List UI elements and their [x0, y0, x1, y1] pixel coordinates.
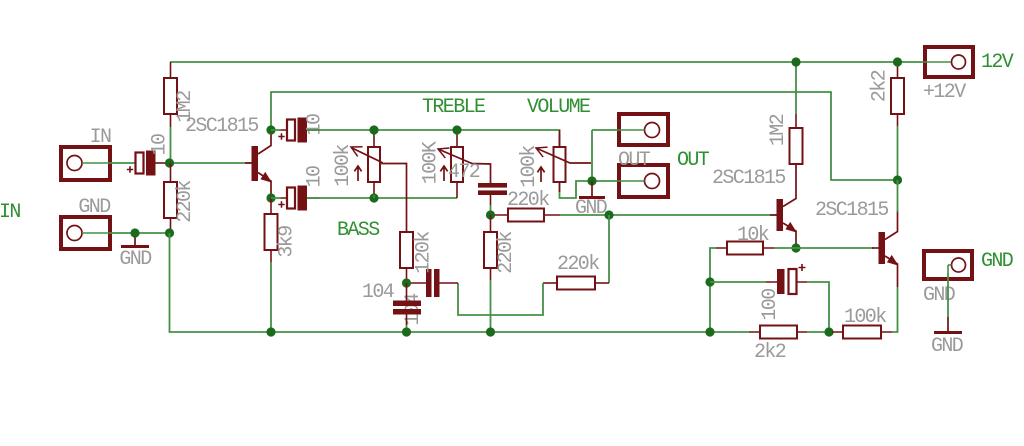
svg-text:2SC1815: 2SC1815: [712, 167, 785, 190]
svg-text:10k: 10k: [737, 224, 769, 247]
svg-text:BASS: BASS: [337, 219, 380, 242]
svg-text:1M2: 1M2: [767, 114, 790, 146]
wire tone network bottom: [307, 197, 457, 199]
resistor R10 10k: [727, 242, 763, 255]
wire X2 to ground node: [110, 232, 170, 234]
node P1 top: [369, 125, 378, 134]
wire C3 left: [271, 197, 281, 199]
node Q3 collector junction: [893, 175, 902, 184]
svg-text:100k: 100k: [518, 146, 541, 188]
svg-text:100k: 100k: [332, 145, 355, 187]
svg-text:3k9: 3k9: [276, 226, 299, 258]
node Q1 collector: [266, 125, 275, 134]
adjust arrow P3: [537, 167, 544, 182]
svg-text:GND: GND: [78, 196, 110, 219]
node bottom rail C6: [402, 327, 411, 336]
connector X5 12V: [923, 47, 973, 77]
svg-text:12V: 12V: [981, 51, 1014, 74]
potentiometer P3 100k VOLUME: [554, 147, 566, 182]
resistor R3 3k9 (emitter): [265, 214, 278, 250]
ground symbol left: [134, 233, 136, 245]
node cap node: [705, 277, 714, 286]
capacitor C5 104: [426, 269, 440, 297]
node rail R9: [893, 57, 902, 66]
node treble junction: [486, 210, 495, 219]
node bottom rail R6: [486, 327, 495, 336]
wire 10k right to emitter node: [774, 247, 796, 249]
svg-text:120k: 120k: [413, 232, 436, 274]
node P2 top: [452, 125, 461, 134]
node bottom rail 100k: [824, 327, 833, 336]
transistor Q1 2SC1815: [252, 133, 272, 195]
wiper arrowhead P3: [534, 143, 548, 157]
node bottom rail left drop: [705, 327, 714, 336]
resistor R6 220k (mid vertical): [484, 232, 497, 268]
svg-text:220k: 220k: [174, 181, 197, 223]
wire emitter node to Q3 base: [796, 247, 874, 249]
wire Q2 emitter node: [795, 245, 797, 248]
potentiometer P2 100K TREBLE: [451, 147, 463, 182]
emitter arrow Q3: [887, 255, 901, 269]
potentiometer P1 100k BASS: [368, 147, 380, 182]
wire C7 left: [710, 281, 766, 283]
resistor R9 2k2 (supply): [891, 78, 904, 114]
svg-text:10: 10: [304, 114, 327, 135]
wire collector rail Q1 to right stage: [271, 92, 898, 180]
wire R3 to bottom rail: [270, 262, 272, 332]
wiper arrowhead P2: [436, 144, 450, 158]
connector X6 GND right: [924, 251, 972, 279]
connector X1 IN: [61, 147, 110, 180]
connector X3 OUT top: [617, 114, 668, 145]
svg-text:2SC1815: 2SC1815: [185, 115, 258, 138]
wire treble node: [491, 214, 496, 216]
capacitor C3 10 (emitter coupling): [278, 186, 307, 211]
svg-text:GND: GND: [931, 335, 963, 358]
resistor R1 1M2 (input bias): [164, 78, 177, 114]
wire Q3 collector up: [897, 180, 899, 212]
svg-text:220k: 220k: [495, 232, 518, 274]
node ground tap: [130, 228, 139, 237]
node out ground: [587, 176, 596, 185]
capacitor C6 104 (vertical): [393, 301, 421, 315]
wire out ground node to X4: [592, 180, 617, 182]
svg-text:220k: 220k: [507, 189, 549, 212]
transistor Q2 2SC1815: [777, 164, 797, 245]
wire 220k lower to feedback node: [608, 215, 610, 283]
svg-text:2k2: 2k2: [754, 341, 786, 364]
svg-text:100k: 100k: [844, 306, 886, 329]
wire tone network top: [307, 130, 560, 147]
resistor R12 100k (bottom): [843, 326, 881, 339]
wire left ground drop to bottom rail: [170, 233, 750, 332]
node R2 bottom junction: [165, 228, 174, 237]
wire input node to Q1 base: [169, 162, 252, 164]
resistor R4 120k (bass network): [400, 232, 413, 268]
capacitor C2 10 (collector coupling): [278, 118, 307, 143]
wiper arrowhead P1: [349, 142, 363, 156]
wire X1 to C1: [110, 162, 135, 164]
capacitor C7 100 (polarised): [777, 264, 806, 294]
resistor R2 220k (base to ground): [164, 182, 177, 218]
adjust arrow P2: [440, 166, 447, 181]
connector X4 OUT bottom: [617, 165, 668, 197]
resistor R11 2k2 (bottom): [760, 326, 797, 339]
wire C7 right to 100k node: [807, 282, 829, 332]
ground symbol out: [591, 181, 593, 196]
node P1 bottom: [369, 193, 378, 202]
svg-text:GND: GND: [575, 197, 607, 220]
node bottom rail R3: [266, 327, 275, 336]
svg-text:104: 104: [362, 281, 394, 304]
node input junction: [165, 158, 174, 167]
svg-text:100: 100: [759, 289, 782, 321]
svg-text:OUT: OUT: [677, 149, 710, 172]
svg-text:GND: GND: [981, 250, 1013, 273]
svg-text:10: 10: [149, 134, 172, 155]
node Q2 emitter junction: [791, 243, 800, 252]
resistor R7 220k (lower horizontal): [557, 277, 595, 290]
svg-text:2k2: 2k2: [869, 70, 892, 102]
svg-text:10: 10: [304, 166, 327, 187]
wire R1 bottom to input node: [170, 127, 172, 163]
wire R8 top to rail: [795, 62, 797, 114]
emitter arrow Q1: [260, 172, 274, 186]
wire volume wiper to X3: [592, 129, 617, 131]
svg-text:IN: IN: [90, 126, 111, 149]
ground symbol right: [947, 317, 949, 331]
svg-text:2SC1815: 2SC1815: [815, 199, 888, 222]
capacitor C4 472: [478, 183, 507, 195]
wire P3 bottom to out ground: [560, 181, 593, 198]
resistor R8 1M2 (Q2 collector): [790, 128, 803, 164]
adjust arrow P1: [354, 166, 361, 181]
svg-text:VOLUME: VOLUME: [527, 96, 590, 119]
wire bottom rail right part: [807, 331, 832, 333]
svg-text:GND: GND: [923, 284, 955, 307]
wire C2 left: [271, 129, 281, 131]
resistor R5 220k (treble network): [508, 209, 544, 222]
node Q1 emitter: [266, 193, 275, 202]
svg-text:220k: 220k: [557, 253, 599, 276]
wire R6 to bottom rail: [490, 280, 492, 332]
wire 10k left drop: [710, 248, 716, 332]
wire top +12V rail: [170, 61, 923, 63]
wire C6 to bottom rail: [406, 325, 408, 332]
svg-text:TREBLE: TREBLE: [422, 96, 485, 119]
emitter arrow Q2: [785, 222, 799, 236]
svg-text:+12V: +12V: [923, 81, 966, 104]
svg-text:472: 472: [448, 161, 480, 184]
node bass junction: [402, 278, 411, 287]
node rail R8: [791, 57, 800, 66]
capacitor C1 10 (input): [127, 151, 156, 176]
wire C4 to node: [490, 195, 492, 205]
svg-text:IN: IN: [0, 201, 20, 224]
node feedback junction: [604, 210, 613, 219]
wire feedback line to Q2 base: [560, 214, 777, 216]
wire X6 to ground symbol: [947, 273, 949, 317]
svg-text:GND: GND: [119, 248, 151, 271]
svg-text:100K: 100K: [420, 141, 443, 184]
transistor Q3 2SC1815: [879, 210, 898, 287]
connector X2 GND: [61, 217, 110, 249]
wire R7 left to C5 node: [458, 283, 543, 315]
svg-text:OUT: OUT: [618, 149, 651, 172]
wire R9 bottom to Q3 collector node: [897, 126, 899, 180]
